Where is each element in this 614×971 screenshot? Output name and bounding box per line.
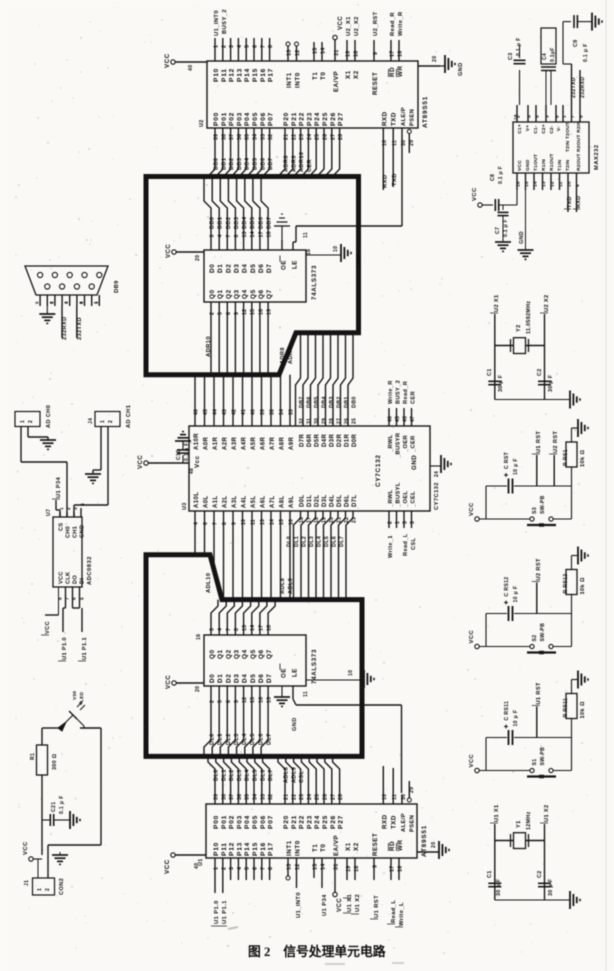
svg-text:45: 45 <box>203 409 209 415</box>
svg-text:D1: D1 <box>217 264 224 273</box>
connector DB9 serial port <box>25 266 120 306</box>
svg-text:33: 33 <box>260 134 266 140</box>
svg-text:6: 6 <box>226 700 232 703</box>
svg-text:7: 7 <box>226 628 232 631</box>
svg-text:INT1: INT1 <box>286 72 293 88</box>
ground (DB9 pin5) <box>39 314 55 323</box>
svg-text:TXD: TXD <box>391 112 398 126</box>
svg-text:VCC: VCC <box>166 244 172 258</box>
svg-text:C3: C3 <box>508 53 514 61</box>
svg-text:LED: LED <box>79 691 85 702</box>
ADC0832 top pin stubs <box>59 503 86 517</box>
svg-text:Read_L: Read_L <box>403 533 409 556</box>
svg-text:图 2 信号处理单元电路: 图 2 信号处理单元电路 <box>248 944 386 959</box>
svg-text:C1: C1 <box>487 871 493 879</box>
svg-text:11: 11 <box>558 181 564 187</box>
svg-text:28: 28 <box>338 134 344 140</box>
power VCC (U1 pin 40) <box>164 853 206 874</box>
svg-text:DB7: DB7 <box>299 396 305 408</box>
svg-text:AD CH1: AD CH1 <box>126 405 132 428</box>
svg-text:D6L: D6L <box>345 494 351 507</box>
svg-text:4: 4 <box>194 522 200 525</box>
svg-text:A8L: A8L <box>280 495 286 508</box>
svg-text:Q7: Q7 <box>266 289 273 299</box>
net stubs U1 RST/U2 RST <box>532 431 559 486</box>
svg-text:20: 20 <box>195 686 201 692</box>
net stubs U1 RST <box>532 682 542 737</box>
svg-text:17: 17 <box>390 50 396 57</box>
svg-text:17: 17 <box>258 625 264 631</box>
svg-text:17: 17 <box>390 865 396 872</box>
svg-text:DL4: DL4 <box>242 733 248 745</box>
latch U4 OE pull-down ground <box>274 214 309 250</box>
svg-text:D4R: D4R <box>322 434 328 447</box>
LED V30 <box>58 691 85 731</box>
svg-text:EA/VP: EA/VP <box>333 71 340 92</box>
svg-text:GND: GND <box>525 159 531 171</box>
svg-text:4: 4 <box>218 628 224 631</box>
svg-text:16: 16 <box>513 114 519 120</box>
svg-text:A0R: A0R <box>204 437 210 450</box>
svg-text:CSL: CSL <box>299 770 305 783</box>
svg-text:3: 3 <box>210 234 216 237</box>
svg-text:10k Ω: 10k Ω <box>580 450 586 467</box>
svg-text:U2_X2: U2_X2 <box>354 16 360 36</box>
svg-text:16: 16 <box>516 181 522 187</box>
svg-text:P12: P12 <box>229 842 236 856</box>
svg-text:DL7: DL7 <box>267 733 273 745</box>
svg-text:VCC: VCC <box>23 841 29 855</box>
svg-text:Q1: Q1 <box>217 649 224 659</box>
svg-text:232RXD: 232RXD <box>62 316 68 340</box>
svg-text:R1IN: R1IN <box>541 159 547 171</box>
svg-text:WR: WR <box>397 65 404 77</box>
svg-text:0.1μF: 0.1μF <box>550 47 556 62</box>
svg-text:U1 X2: U1 X2 <box>544 804 550 822</box>
svg-text:U1 RST: U1 RST <box>536 431 542 453</box>
svg-text:22: 22 <box>291 794 297 800</box>
svg-text:32: 32 <box>268 794 274 800</box>
svg-text:27: 27 <box>330 794 336 800</box>
svg-text:P27: P27 <box>338 112 345 126</box>
svg-text:40: 40 <box>194 862 200 869</box>
svg-text:D0R: D0R <box>352 434 358 447</box>
U1 T1 T0 pins 15 14, net U1_P34 <box>313 858 329 916</box>
ground GND (latch U4 pin 10) <box>306 246 341 255</box>
svg-text:P04: P04 <box>244 112 251 126</box>
svg-text:P23: P23 <box>306 112 313 126</box>
svg-text:19: 19 <box>267 309 273 315</box>
svg-text:10: 10 <box>241 519 247 525</box>
svg-text:T1IN: T1IN <box>557 159 563 171</box>
svg-text:31: 31 <box>334 863 340 870</box>
svg-text:R RS1: R RS1 <box>563 449 569 466</box>
svg-text:DL2: DL2 <box>302 536 308 547</box>
svg-text:6: 6 <box>78 301 83 304</box>
svg-text:U7: U7 <box>46 509 52 516</box>
wire U2 ALE to latch U4 LE <box>293 128 407 250</box>
svg-text:U1 P1.0: U1 P1.0 <box>62 637 68 660</box>
svg-text:40: 40 <box>251 409 257 415</box>
ground (R RS1) <box>578 419 588 437</box>
connector J4 AD_CH1 <box>88 405 132 428</box>
DB9 ground pin <box>46 306 48 314</box>
U2 RD WR pins 17 16, nets Read_R Write_R <box>390 11 404 61</box>
svg-text:D3: D3 <box>233 264 240 273</box>
svg-text:P21: P21 <box>291 112 298 126</box>
ground symbol U1 pin20 <box>439 841 449 859</box>
ground symbol RAM right <box>441 455 451 473</box>
svg-text:VCC: VCC <box>338 16 344 30</box>
U1 RD WR pins 17 16, nets Read_L Write_L <box>387 858 405 927</box>
svg-text:VCC: VCC <box>164 53 171 68</box>
svg-text:U1_INT0: U1_INT0 <box>296 892 302 918</box>
svg-text:RD: RD <box>389 841 396 851</box>
svg-text:16: 16 <box>196 634 202 640</box>
svg-text:A4L: A4L <box>242 495 248 508</box>
svg-text:U3: U3 <box>182 502 188 510</box>
svg-text:R RS11: R RS11 <box>563 698 569 718</box>
crystal Y2 11.0592MHz subcircuit <box>490 294 550 399</box>
svg-text:Q4: Q4 <box>242 289 249 299</box>
svg-text:22: 22 <box>291 134 297 140</box>
svg-text:U2 RST: U2 RST <box>553 431 559 453</box>
MAX232 bottom pin stubs <box>516 173 582 190</box>
svg-text:DL6: DL6 <box>332 536 338 547</box>
U2 X1 X2 pins 19 18, nets U2_X1 U2_X2 <box>346 16 360 61</box>
svg-text:D3: D3 <box>233 674 240 683</box>
svg-text:8: 8 <box>234 628 240 631</box>
ground (C9) <box>592 13 602 31</box>
svg-text:P20: P20 <box>283 815 290 829</box>
net label ADL10 <box>206 573 212 593</box>
svg-text:Q0: Q0 <box>209 649 216 659</box>
svg-text:DB2: DB2 <box>226 217 232 229</box>
svg-text:DB0: DB0 <box>214 158 220 170</box>
svg-text:18: 18 <box>267 231 273 237</box>
svg-text:13: 13 <box>242 231 248 237</box>
svg-text:15: 15 <box>313 863 319 870</box>
svg-text:CER: CER <box>411 391 417 404</box>
net stubs U2 RST <box>532 558 542 613</box>
bus DB into latch U5 (top side) <box>210 600 276 635</box>
svg-text:8: 8 <box>222 522 228 525</box>
svg-text:DB4: DB4 <box>242 216 248 229</box>
wires AD_CH0 to ADC and ground <box>21 427 67 518</box>
svg-text:ADR10: ADR10 <box>299 152 305 172</box>
svg-text:P25: P25 <box>322 112 329 126</box>
svg-text:D6R: D6R <box>307 434 313 447</box>
svg-text:DB2: DB2 <box>337 396 343 408</box>
svg-text:RXD: RXD <box>576 196 582 208</box>
svg-text:T2IN T2OUT: T2IN T2OUT <box>565 122 571 152</box>
svg-text:15: 15 <box>250 309 256 315</box>
svg-text:P13: P13 <box>236 68 243 82</box>
svg-text:AT89S51: AT89S51 <box>422 96 429 128</box>
svg-text:DB3: DB3 <box>237 158 243 170</box>
svg-text:5: 5 <box>535 115 541 118</box>
net U1_P34 to ADC CS <box>52 476 62 517</box>
svg-text:C1: C1 <box>487 369 493 377</box>
svg-text:A0L: A0L <box>204 495 210 508</box>
svg-text:43: 43 <box>222 409 228 415</box>
svg-text:DB5: DB5 <box>253 158 259 170</box>
svg-text:41: 41 <box>241 409 247 415</box>
switch S2 SW-PB <box>527 623 556 653</box>
svg-text:37: 37 <box>229 794 235 800</box>
svg-text:D1R: D1R <box>345 434 351 447</box>
svg-text:P15: P15 <box>252 68 259 82</box>
svg-text:12: 12 <box>242 697 248 703</box>
svg-text:9: 9 <box>373 52 379 55</box>
svg-text:U1 RST: U1 RST <box>536 682 542 704</box>
svg-text:ADL8: ADL8 <box>284 767 290 783</box>
power VCC (MAX232) <box>472 166 517 211</box>
svg-text:VCC: VCC <box>469 502 475 516</box>
U2 serial pins RXD TXD <box>382 128 398 190</box>
ground symbol CON2 <box>52 855 68 864</box>
svg-text:20: 20 <box>431 841 437 848</box>
capacitor C2 30uF (Y1) <box>537 871 554 897</box>
svg-text:P04: P04 <box>244 815 251 829</box>
svg-text:DB1: DB1 <box>344 396 350 408</box>
U1 ALE PSEN pins <box>401 781 415 804</box>
svg-text:ADL10: ADL10 <box>206 573 212 593</box>
svg-text:1: 1 <box>562 115 568 118</box>
svg-text:13: 13 <box>541 181 547 187</box>
connector J1 CON2 <box>24 878 65 895</box>
net label BUSY_2 <box>222 9 228 34</box>
svg-text:V+: V+ <box>525 125 531 132</box>
svg-text:C2+: C2+ <box>541 124 547 134</box>
svg-text:6: 6 <box>203 522 209 525</box>
svg-text:A10L: A10L <box>194 492 200 508</box>
wires AD_CH1 to ADC and ground <box>74 427 108 518</box>
svg-text:2: 2 <box>66 507 72 510</box>
svg-text:3: 3 <box>229 867 235 870</box>
svg-text:D7L: D7L <box>352 494 358 507</box>
svg-text:2: 2 <box>388 521 394 524</box>
svg-text:VCC: VCC <box>164 859 171 874</box>
svg-text:8: 8 <box>234 234 240 237</box>
svg-text:D5: D5 <box>250 264 257 273</box>
svg-text:14: 14 <box>533 181 539 187</box>
svg-text:A4R: A4R <box>242 437 248 450</box>
svg-text:2: 2 <box>45 888 51 891</box>
svg-text:DB9: DB9 <box>114 280 120 293</box>
nets 232RXD 232TXD from DB9 <box>62 306 83 340</box>
svg-text:V30: V30 <box>72 691 78 700</box>
svg-text:P01: P01 <box>221 112 228 126</box>
svg-text:30: 30 <box>401 794 407 800</box>
svg-text:S2: S2 <box>532 635 538 642</box>
svg-text:2: 2 <box>28 420 34 423</box>
svg-text:9: 9 <box>234 700 240 703</box>
svg-text:30 μ F: 30 μ F <box>496 878 502 896</box>
svg-text:44: 44 <box>213 409 219 415</box>
svg-text:D1: D1 <box>217 674 224 683</box>
svg-text:11.0592MHz: 11.0592MHz <box>526 301 532 334</box>
svg-text:25: 25 <box>315 134 321 140</box>
crystal Y1 12MHz subcircuit <box>490 804 550 900</box>
svg-text:39: 39 <box>260 409 266 415</box>
svg-text:DB1: DB1 <box>221 158 227 170</box>
svg-text:DL0: DL0 <box>214 769 220 781</box>
svg-text:R2OUT: R2OUT <box>576 153 582 171</box>
svg-text:S3: S3 <box>532 507 538 514</box>
svg-text:_CEL: _CEL <box>411 491 417 508</box>
capacitor C1 30uF (Y2) <box>487 369 504 393</box>
svg-text:Read_R: Read_R <box>403 381 409 404</box>
U1 INT pins 13 12, net U1_INT0 <box>286 858 302 918</box>
svg-text:300 Ω: 300 Ω <box>52 753 58 770</box>
svg-text:1: 1 <box>214 867 220 870</box>
svg-text:10: 10 <box>348 670 354 676</box>
svg-text:TXD: TXD <box>567 196 573 208</box>
svg-text:PSEN: PSEN <box>410 109 416 126</box>
svg-text:DL3: DL3 <box>237 769 243 781</box>
svg-text:4: 4 <box>527 115 533 118</box>
svg-text:ADC0832: ADC0832 <box>87 556 93 585</box>
power VCC (RAM U3) <box>138 455 189 469</box>
svg-text:Q7: Q7 <box>266 649 273 659</box>
svg-text:ADL9: ADL9 <box>291 767 297 783</box>
svg-text:INT0: INT0 <box>295 840 302 856</box>
svg-text:P22: P22 <box>299 112 306 126</box>
svg-text:46: 46 <box>388 416 394 422</box>
svg-text:11: 11 <box>392 140 398 146</box>
svg-text:48: 48 <box>189 468 195 474</box>
svg-text:Q4: Q4 <box>242 649 249 659</box>
svg-text:D4: D4 <box>242 264 249 273</box>
svg-text:U1 RST: U1 RST <box>374 895 380 918</box>
switch S1 SW-PB <box>527 747 556 777</box>
svg-text:10: 10 <box>382 794 388 800</box>
svg-text:39: 39 <box>214 134 220 140</box>
svg-text:GND: GND <box>458 62 464 76</box>
svg-text:8: 8 <box>268 867 274 870</box>
U1 P10 P11 bottom pins, nets U1_P1.0 U1_P1.1 <box>211 858 274 926</box>
svg-text:U2_X1: U2_X1 <box>346 16 352 36</box>
svg-text:D4: D4 <box>242 674 249 683</box>
svg-text:24: 24 <box>307 794 313 800</box>
svg-text:DL7: DL7 <box>268 769 274 781</box>
svg-text:14: 14 <box>250 625 256 631</box>
svg-text:P01: P01 <box>221 815 228 829</box>
svg-text:A8R: A8R <box>280 437 286 450</box>
crystal Y2 <box>511 301 533 354</box>
svg-text:28: 28 <box>338 794 344 800</box>
svg-text:T2IN: T2IN <box>565 159 571 171</box>
svg-text:D5: D5 <box>250 674 257 683</box>
svg-text:DL3: DL3 <box>309 536 315 547</box>
svg-text:P17: P17 <box>268 68 275 82</box>
svg-text:DL6: DL6 <box>258 733 264 745</box>
svg-text:1: 1 <box>20 420 26 423</box>
U1 X1 X2 pins 19 18, nets U1_X1 U1_X2 <box>343 858 361 914</box>
svg-text:10k Ω: 10k Ω <box>580 577 586 594</box>
svg-text:32: 32 <box>268 134 274 140</box>
svg-text:T1: T1 <box>312 72 319 80</box>
svg-text:D6: D6 <box>258 264 265 273</box>
svg-text:5: 5 <box>35 301 40 304</box>
svg-text:CY7C132: CY7C132 <box>434 482 440 510</box>
U2 INT1 INT0 pins 13 12 <box>286 42 301 61</box>
svg-text:35: 35 <box>245 794 251 800</box>
svg-text:10k Ω: 10k Ω <box>580 701 586 718</box>
svg-text:10 μ F: 10 μ F <box>513 458 519 475</box>
svg-text:26: 26 <box>323 794 329 800</box>
svg-text:A1L: A1L <box>213 495 219 508</box>
capacitor C RS12 10uF electrolytic <box>504 577 519 621</box>
svg-text:INT1: INT1 <box>286 840 293 856</box>
svg-text:V-: V- <box>556 126 562 131</box>
svg-text:DL5: DL5 <box>253 769 259 781</box>
svg-text:36: 36 <box>237 794 243 800</box>
power VCC (to U2 pin 40) <box>164 53 175 68</box>
svg-text:D4L: D4L <box>330 494 336 507</box>
svg-text:RESET: RESET <box>372 833 379 856</box>
svg-text:_RWL: _RWL <box>388 434 394 453</box>
svg-text:39: 39 <box>214 794 220 800</box>
svg-text:D3L: D3L <box>322 494 328 507</box>
svg-text:A7L: A7L <box>270 495 276 508</box>
svg-text:X1: X1 <box>345 70 352 79</box>
svg-text:A5L: A5L <box>251 495 257 508</box>
svg-text:U1 P34: U1 P34 <box>56 476 62 498</box>
MAX232 GND pin to ground <box>519 190 526 250</box>
svg-text:VCC: VCC <box>45 621 51 634</box>
scan artifacts <box>228 0 606 971</box>
svg-text:DB4: DB4 <box>322 396 328 408</box>
svg-text:16: 16 <box>258 309 264 315</box>
svg-text:0.1 μ F: 0.1 μ F <box>184 442 190 461</box>
U1 RESET pin 9, net U1_RST <box>370 858 380 919</box>
svg-text:6: 6 <box>72 597 78 600</box>
ground symbol latch U5 right <box>364 670 374 688</box>
svg-text:C7: C7 <box>495 227 501 234</box>
ground (R RS11) <box>578 671 588 689</box>
svg-text:EA/VP: EA/VP <box>333 835 340 856</box>
U1 serial pins RXD TXD stubs <box>382 766 398 804</box>
svg-text:D5R: D5R <box>315 434 321 447</box>
svg-text:_BUSYL: _BUSYL <box>396 482 402 508</box>
svg-text:U1 P1.1: U1 P1.1 <box>222 900 228 924</box>
svg-text:_OEL: _OEL <box>403 491 409 508</box>
capacitor C7 0.1uF to ground <box>495 205 509 242</box>
capacitor C RST 10uF electrolytic <box>504 451 519 493</box>
svg-text:A9L: A9L <box>289 495 295 508</box>
svg-text:DB7: DB7 <box>268 158 274 170</box>
capacitor C9 0.1uF top right <box>563 15 592 64</box>
svg-text:8: 8 <box>58 597 64 600</box>
bus latch U5 D0-D7 down to bus <box>204 686 273 756</box>
svg-text:28: 28 <box>329 418 335 424</box>
wire Y1 caps to ground <box>495 899 570 901</box>
ground symbol MAX232 GND <box>518 250 534 259</box>
IC U2 AT89S51 <box>199 61 429 128</box>
svg-text:20: 20 <box>195 255 201 261</box>
svg-text:31: 31 <box>334 49 340 56</box>
wire latch U5 LE to U1 ALE <box>293 686 402 793</box>
svg-text:3: 3 <box>73 507 79 510</box>
svg-text:AD CH0: AD CH0 <box>46 405 52 428</box>
power VCC (latch U4 pin 20) <box>166 244 204 261</box>
svg-text:12: 12 <box>550 181 556 187</box>
svg-text:D7R: D7R <box>300 434 306 447</box>
svg-text:CS: CS <box>59 523 65 531</box>
svg-text:12: 12 <box>295 863 301 870</box>
